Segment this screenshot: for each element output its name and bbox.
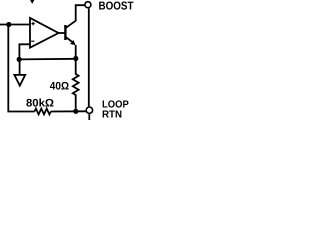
supply arrow above op-amp: [30, 0, 35, 4]
svg-text:40Ω: 40Ω: [50, 81, 69, 93]
wire right rail: [88, 8, 90, 106]
transistor Q1 base bar: [64, 25, 66, 40]
wire op-amp output: [59, 32, 65, 34]
resistor R1 80kOhm horizontal zigzag: [35, 109, 51, 115]
wire left rail down: [8, 25, 34, 112]
node B bottom junction: [73, 109, 78, 114]
wire noninverting input: [0, 24, 30, 26]
op-amp U1: [30, 18, 59, 48]
transistor Q1 collector: [65, 5, 84, 28]
svg-text:BOOST: BOOST: [99, 1, 134, 13]
terminal LOOP RTN: [86, 107, 92, 113]
node C emitter feedback junction: [73, 56, 78, 61]
node A junction on +input wire: [6, 22, 11, 27]
wire feedback horizontal: [19, 58, 76, 61]
wire bottom to loop terminal: [51, 110, 86, 112]
svg-text:RTN: RTN: [102, 109, 122, 120]
transistor Q1 emitter with arrow: [65, 37, 73, 43]
wire stub below loop terminal: [88, 114, 90, 120]
wire inverting input: [19, 44, 29, 59]
terminal BOOST: [85, 2, 91, 8]
current sink arrow to negative supply: [19, 59, 21, 74]
resistor R2 40Ohm vertical zigzag: [73, 59, 79, 112]
node D inverting input junction: [17, 57, 22, 62]
svg-text:80kΩ: 80kΩ: [26, 97, 54, 109]
